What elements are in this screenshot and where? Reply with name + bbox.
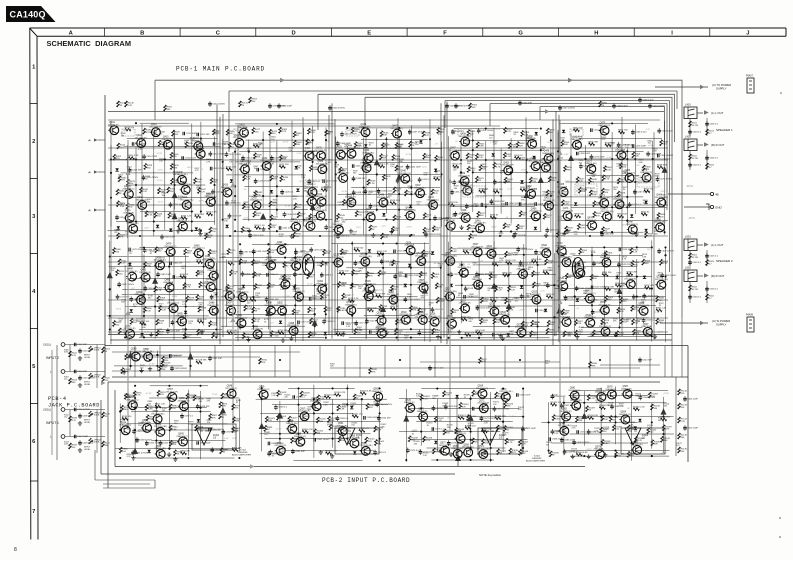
junction [611, 206, 613, 208]
junction [499, 235, 501, 237]
jack wire upper [65, 409, 105, 411]
cell h-wire [570, 158, 671, 160]
cell h-wire [138, 429, 221, 431]
value label R942 [574, 232, 580, 236]
boundary vertical wire [446, 102, 448, 345]
cell v-wire [651, 240, 653, 341]
resistor R1019 [325, 451, 337, 455]
svg-text:2SA1306A: 2SA1306A [472, 278, 483, 281]
svg-text:R416 2.2K: R416 2.2K [128, 155, 139, 157]
transistor Q530 [457, 265, 470, 277]
transistor Q470 [598, 123, 610, 135]
svg-text:1.2K: 1.2K [286, 278, 291, 280]
svg-text:C547 10/50V: C547 10/50V [562, 107, 575, 109]
svg-text:C406 47/50V: C406 47/50V [77, 409, 90, 411]
diode D416 [419, 140, 422, 143]
resistor R832 [508, 286, 517, 292]
svg-text:2SC2240 (BL): 2SC2240 (BL) [457, 267, 470, 269]
junction [500, 230, 502, 232]
grey signal bus [232, 152, 234, 432]
svg-text:R636 39K: R636 39K [588, 141, 598, 143]
svg-text:4.7K: 4.7K [256, 276, 261, 278]
value label R718 [148, 295, 154, 299]
value label R773 [234, 332, 240, 336]
resistor R957 [155, 404, 166, 408]
long vertical wire [302, 117, 304, 341]
value label R713 [181, 266, 187, 270]
svg-text:2SA1209 (C): 2SA1209 (C) [517, 267, 529, 270]
capacitor C411 [183, 132, 197, 136]
svg-text:4.7K: 4.7K [499, 260, 504, 262]
capacitor C467 [633, 189, 648, 195]
resistor R779 [348, 298, 359, 302]
capacitor C497 [239, 249, 253, 255]
transistor Q542 [583, 291, 595, 303]
resistor R706 [196, 270, 205, 276]
resistor R441 [210, 178, 219, 184]
value label R615 [520, 157, 526, 161]
cell v-wire [143, 255, 145, 326]
svg-text:C519 10/50V: C519 10/50V [468, 288, 481, 290]
resistor R597 [546, 128, 555, 134]
junction [460, 159, 462, 161]
svg-text:10 2W: 10 2W [692, 125, 699, 127]
value label R407 [64, 377, 70, 381]
svg-text:R794 100: R794 100 [339, 271, 349, 273]
value label R915 [658, 273, 664, 277]
svg-text:C573 100P: C573 100P [451, 443, 462, 445]
resistor R971 [121, 405, 130, 411]
transistor Q526 [444, 253, 457, 265]
junction [485, 128, 487, 130]
junction [550, 139, 552, 141]
value label R459 [120, 204, 126, 208]
svg-text:C584 10/50V: C584 10/50V [643, 397, 656, 399]
transistor Q410 [149, 124, 161, 136]
svg-text:-47.8V: -47.8V [406, 154, 413, 156]
cell h-wire [455, 284, 555, 286]
transistor Q489 [167, 300, 179, 312]
value label R606 [489, 135, 495, 139]
capacitor C525 [591, 309, 605, 315]
svg-text:C600 10/50V: C600 10/50V [652, 105, 665, 107]
ground [483, 450, 487, 454]
resistor R1000 [374, 426, 384, 432]
svg-text:4.7K: 4.7K [603, 429, 608, 431]
diode D411 [225, 225, 228, 228]
svg-text:4.7K: 4.7K [560, 140, 565, 142]
resistor R787 [422, 250, 431, 256]
capacitor C460 [519, 202, 535, 206]
cell h-wire [139, 329, 222, 331]
svg-text:R998 4.7K: R998 4.7K [359, 428, 370, 430]
resistor R401 [689, 121, 699, 127]
signal-flow arrow [374, 159, 380, 165]
svg-text:11.5V: 11.5V [307, 283, 313, 285]
svg-text:4.7K: 4.7K [602, 139, 607, 141]
transistor Q453 [502, 162, 514, 174]
junction [557, 181, 559, 183]
svg-text:C481 220P: C481 220P [175, 322, 186, 324]
resistor R484 [293, 140, 302, 146]
cell h-wire [108, 230, 196, 232]
capacitor C555 [159, 440, 176, 446]
svg-text:4.7K: 4.7K [311, 132, 316, 134]
value label R1026 [308, 407, 315, 411]
resistor R405 [102, 376, 111, 382]
diode D420 [534, 227, 537, 230]
junction [252, 325, 254, 327]
junction [379, 438, 381, 440]
svg-text:11.5V: 11.5V [384, 284, 390, 286]
value label R519 [224, 218, 230, 222]
cell v-wire [526, 131, 528, 230]
svg-text:-47.8V: -47.8V [276, 428, 283, 430]
resistor R429 [144, 164, 153, 170]
junction [351, 242, 353, 244]
svg-text:1.2K: 1.2K [416, 396, 421, 398]
svg-text:23.5V: 23.5V [647, 249, 653, 251]
mid bus wire 1 [108, 334, 672, 336]
ground [173, 457, 177, 461]
transistor Q524 [515, 324, 527, 336]
signal-flow arrow [312, 320, 318, 326]
svg-text:ADJ. R817: ADJ. R817 [306, 186, 317, 189]
signal-flow arrow [422, 287, 428, 293]
svg-text:-47.8V: -47.8V [145, 393, 152, 395]
cell v-wire [262, 132, 264, 209]
resistor R808 [352, 270, 361, 276]
resistor R485 [309, 165, 318, 171]
transistor Q504 [236, 289, 248, 301]
value label R812 [389, 263, 395, 267]
junction [574, 265, 576, 267]
transistor Q465 [557, 184, 568, 196]
transistor Q481 [207, 268, 218, 280]
value label R622 [521, 197, 527, 201]
cell h-wire [122, 294, 199, 296]
junction [553, 316, 555, 318]
junction [636, 296, 638, 298]
cell h-wire [272, 404, 388, 406]
svg-text:C594 0.1: C594 0.1 [172, 355, 182, 357]
cell v-wire [537, 256, 539, 340]
capacitor C472 [591, 128, 605, 132]
transistor Q492 [316, 281, 328, 293]
capacitor C550 [145, 440, 160, 446]
transistor Q540 [560, 254, 572, 266]
svg-text:C570 0.1: C570 0.1 [296, 396, 306, 398]
capacitor C494 [322, 319, 336, 325]
ground [78, 448, 82, 452]
svg-text:23.5V: 23.5V [407, 226, 413, 228]
value label R618 [454, 186, 460, 190]
svg-text:C567 47/50V: C567 47/50V [379, 404, 392, 406]
svg-text:4.7K: 4.7K [297, 294, 302, 296]
transistor Q543 [555, 243, 566, 255]
resistor R523 [433, 176, 442, 180]
value label R553 [369, 142, 375, 146]
svg-text:C429 47/50V: C429 47/50V [258, 181, 271, 183]
svg-text:2SC3423 (F): 2SC3423 (F) [471, 247, 483, 249]
resistor R642 [657, 213, 666, 219]
junction [399, 359, 401, 361]
svg-text:39K: 39K [162, 369, 166, 371]
transistor Q551 [154, 424, 167, 436]
long horizontal wire [108, 147, 668, 149]
value label R1029 [350, 403, 357, 407]
cell h-wire [421, 388, 495, 390]
resistor R998 [359, 428, 370, 432]
svg-text:R698 220: R698 220 [197, 319, 207, 321]
svg-text:C605 0.1: C605 0.1 [709, 255, 719, 257]
junction [134, 397, 136, 399]
cell v-wire [325, 262, 327, 321]
capacitor C548 [638, 97, 654, 103]
junction [410, 337, 412, 339]
svg-text:2SA970 (BL): 2SA970 (BL) [142, 350, 154, 353]
value label R871 [526, 293, 532, 297]
resistor R785 [395, 319, 404, 325]
capacitor C474 [632, 144, 646, 148]
svg-text:C601 220P: C601 220P [687, 398, 698, 400]
svg-text:-47.8V: -47.8V [519, 310, 526, 312]
svg-text:23.5V: 23.5V [622, 225, 628, 227]
capacitor C450 [506, 202, 522, 206]
transistor Q500 [279, 276, 291, 288]
svg-text:R880 1.2K: R880 1.2K [656, 308, 667, 310]
capacitor C466 [617, 142, 634, 148]
svg-text:NOTE 4a position: NOTE 4a position [479, 473, 502, 477]
value label R1038 [272, 453, 279, 457]
capacitor C406 [74, 408, 90, 412]
svg-text:L602: L602 [685, 266, 691, 270]
ground [341, 332, 345, 336]
transistor Q555 [141, 420, 152, 432]
junction [652, 158, 654, 160]
note box TP2 [234, 129, 247, 136]
svg-text:2SC3423 (F): 2SC3423 (F) [290, 221, 302, 223]
cell v-wire [238, 399, 240, 452]
svg-text:2SC3423 (F): 2SC3423 (F) [458, 175, 470, 177]
svg-text:R957 1.2K: R957 1.2K [155, 404, 166, 406]
svg-text:2SC3423 (F): 2SC3423 (F) [560, 411, 572, 413]
cell h-wire [268, 420, 381, 422]
resistor R594 [530, 177, 539, 183]
resistor R416 [128, 155, 139, 159]
resistor R693 [155, 247, 164, 253]
bus wire net B5 [445, 101, 670, 272]
inter-board vertical wire [649, 346, 651, 378]
junction [319, 235, 321, 237]
svg-text:6.8K: 6.8K [247, 309, 252, 311]
ground [457, 330, 461, 334]
diode D412 [434, 169, 437, 172]
resistor R497 [243, 175, 252, 181]
svg-text:4.7K: 4.7K [482, 361, 487, 363]
svg-text:2.2K: 2.2K [337, 204, 342, 206]
transistor Q490 [154, 257, 166, 269]
resistor R656 [632, 152, 641, 158]
svg-text:C426 47/50V: C426 47/50V [274, 158, 287, 160]
svg-text:1.2K: 1.2K [128, 105, 133, 107]
svg-text:4.7K: 4.7K [157, 290, 162, 292]
cell v-wire [574, 258, 576, 337]
value label R516 [293, 196, 299, 200]
junction [252, 296, 254, 298]
junction [510, 171, 512, 173]
junction [143, 315, 145, 317]
svg-text:2SA970 (BL): 2SA970 (BL) [451, 447, 463, 450]
svg-text:6.8K: 6.8K [479, 146, 484, 148]
resistor R734 [267, 283, 276, 289]
svg-text:2SA999 (F): 2SA999 (F) [345, 196, 356, 199]
svg-text:2.2K: 2.2K [633, 252, 638, 254]
svg-text:2SD2044 (C): 2SD2044 (C) [399, 173, 411, 175]
resistor R730 [242, 333, 251, 339]
value label R508 [270, 161, 276, 165]
svg-text:2SA1306A: 2SA1306A [163, 281, 174, 284]
diode D419 [520, 180, 523, 183]
svg-text:23.5V: 23.5V [158, 169, 164, 171]
value label R912 [617, 273, 623, 277]
svg-text:4.7K: 4.7K [222, 256, 227, 258]
svg-text:39K: 39K [507, 406, 511, 408]
svg-text:23.5V: 23.5V [586, 449, 592, 451]
svg-text:C412 33P: C412 33P [132, 169, 142, 171]
junction [557, 158, 559, 160]
svg-text:C523 100P: C523 100P [594, 287, 605, 289]
svg-text:39K: 39K [620, 182, 624, 184]
resistor R578 [493, 189, 503, 193]
svg-text:1.2K: 1.2K [370, 183, 375, 185]
transistor Q472 [601, 209, 614, 221]
svg-text:4.7K: 4.7K [498, 396, 503, 398]
resistor R1006 [360, 391, 372, 395]
cell v-wire [279, 401, 281, 443]
cell h-wire [112, 256, 189, 258]
resistor R742 [307, 273, 316, 279]
svg-text:C520 1/50V: C520 1/50V [453, 274, 465, 276]
junction [508, 325, 510, 327]
junction [314, 313, 316, 315]
junction [382, 267, 384, 269]
junction [261, 387, 263, 389]
junction [346, 404, 348, 406]
svg-text:6.8K: 6.8K [446, 395, 451, 397]
junction [519, 359, 521, 361]
svg-text:-1.2V: -1.2V [635, 165, 640, 167]
cell h-wire [241, 274, 311, 276]
capacitor C485 [129, 296, 145, 302]
resistor R740 [283, 262, 292, 268]
value label R940 [424, 233, 430, 237]
resistor R1052 [503, 426, 513, 432]
junction [626, 158, 628, 160]
resistor R732 [252, 307, 261, 313]
svg-text:2SC3423 (F): 2SC3423 (F) [179, 184, 191, 186]
resistor R801 [431, 273, 440, 279]
junction [626, 196, 628, 198]
ground [544, 233, 548, 237]
cell h-wire [450, 231, 542, 233]
value label R518 [324, 187, 330, 191]
cell h-wire [226, 174, 303, 176]
value label R919 [614, 290, 620, 294]
terminal GND [710, 205, 722, 209]
diode D408 [230, 179, 233, 182]
capacitor C409 [78, 440, 94, 446]
resistor R1048 [443, 429, 453, 435]
value label R710 [128, 251, 134, 255]
long vertical wire [269, 130, 271, 335]
svg-text:2.2K: 2.2K [342, 254, 347, 256]
value label R914 [642, 254, 648, 258]
transistor Q549 [177, 434, 189, 446]
cell v-wire [200, 391, 202, 459]
svg-text:47K: 47K [212, 417, 216, 419]
resistor R634 [593, 212, 602, 218]
value label R760 [239, 253, 245, 257]
svg-text:39K: 39K [255, 263, 259, 265]
resistor R628 [617, 191, 626, 197]
cell h-wire [557, 196, 643, 198]
svg-text:4.7K: 4.7K [619, 405, 624, 407]
value label R761 [262, 263, 268, 267]
input board top edge wire [112, 376, 688, 378]
resistor R650 [641, 212, 650, 216]
left return vertical wire 1 [100, 400, 102, 474]
resistor R961 [221, 393, 230, 399]
svg-text:R426 6.8K: R426 6.8K [206, 212, 217, 214]
transistor Q421 [290, 219, 302, 231]
signal-flow arrow [662, 167, 668, 173]
capacitor C406 [705, 155, 719, 161]
diode D402 [117, 226, 120, 229]
value label R451 [214, 131, 220, 135]
value label R866 [458, 293, 464, 297]
resistor R531 [423, 213, 432, 219]
note box SOLDER [463, 186, 485, 197]
svg-text:C587 220P: C587 220P [564, 405, 575, 407]
svg-text:2.2K: 2.2K [426, 440, 431, 442]
junction [478, 284, 480, 286]
jack L [50, 370, 65, 374]
transistor Q436 [404, 208, 416, 220]
junction [168, 385, 170, 387]
signal-flow arrow [545, 109, 550, 113]
svg-text:39K: 39K [256, 157, 260, 159]
svg-text:1.2K: 1.2K [143, 191, 148, 193]
value label R1024 [271, 393, 278, 397]
boundary vertical wire [219, 117, 221, 345]
resistor R944 [159, 365, 168, 371]
svg-text:10 2W: 10 2W [692, 257, 699, 259]
cell h-wire [140, 122, 189, 124]
capacitor C505 [342, 321, 358, 325]
svg-text:2SA999 (F): 2SA999 (F) [605, 388, 616, 391]
value label R457 [195, 168, 201, 172]
resistor R968 [186, 393, 195, 399]
junction [485, 159, 487, 161]
resistor R629 [602, 227, 611, 233]
junction [526, 159, 528, 161]
resistor R705 [116, 270, 125, 276]
resistor R1041 [497, 449, 507, 455]
svg-text:6.8K: 6.8K [466, 143, 471, 145]
svg-text:6.8K: 6.8K [320, 399, 325, 401]
junction [109, 288, 111, 290]
